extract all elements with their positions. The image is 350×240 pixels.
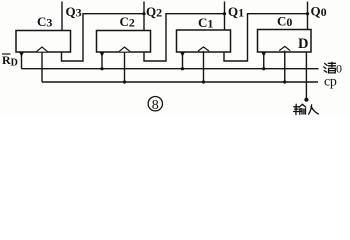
- svg-text:Q0: Q0: [311, 4, 327, 20]
- svg-text:C0: C0: [277, 14, 292, 30]
- svg-text:C1: C1: [198, 15, 213, 31]
- svg-text:cp: cp: [324, 75, 337, 90]
- svg-text:C2: C2: [120, 14, 135, 30]
- svg-text:8: 8: [152, 98, 159, 113]
- svg-text:RD: RD: [2, 53, 18, 69]
- svg-text:Q2: Q2: [146, 4, 162, 20]
- svg-text:C3: C3: [37, 14, 52, 30]
- svg-text:Q3: Q3: [66, 4, 82, 20]
- svg-text:D: D: [298, 36, 308, 52]
- svg-text:Q1: Q1: [228, 4, 244, 20]
- svg-text:0: 0: [336, 62, 342, 76]
